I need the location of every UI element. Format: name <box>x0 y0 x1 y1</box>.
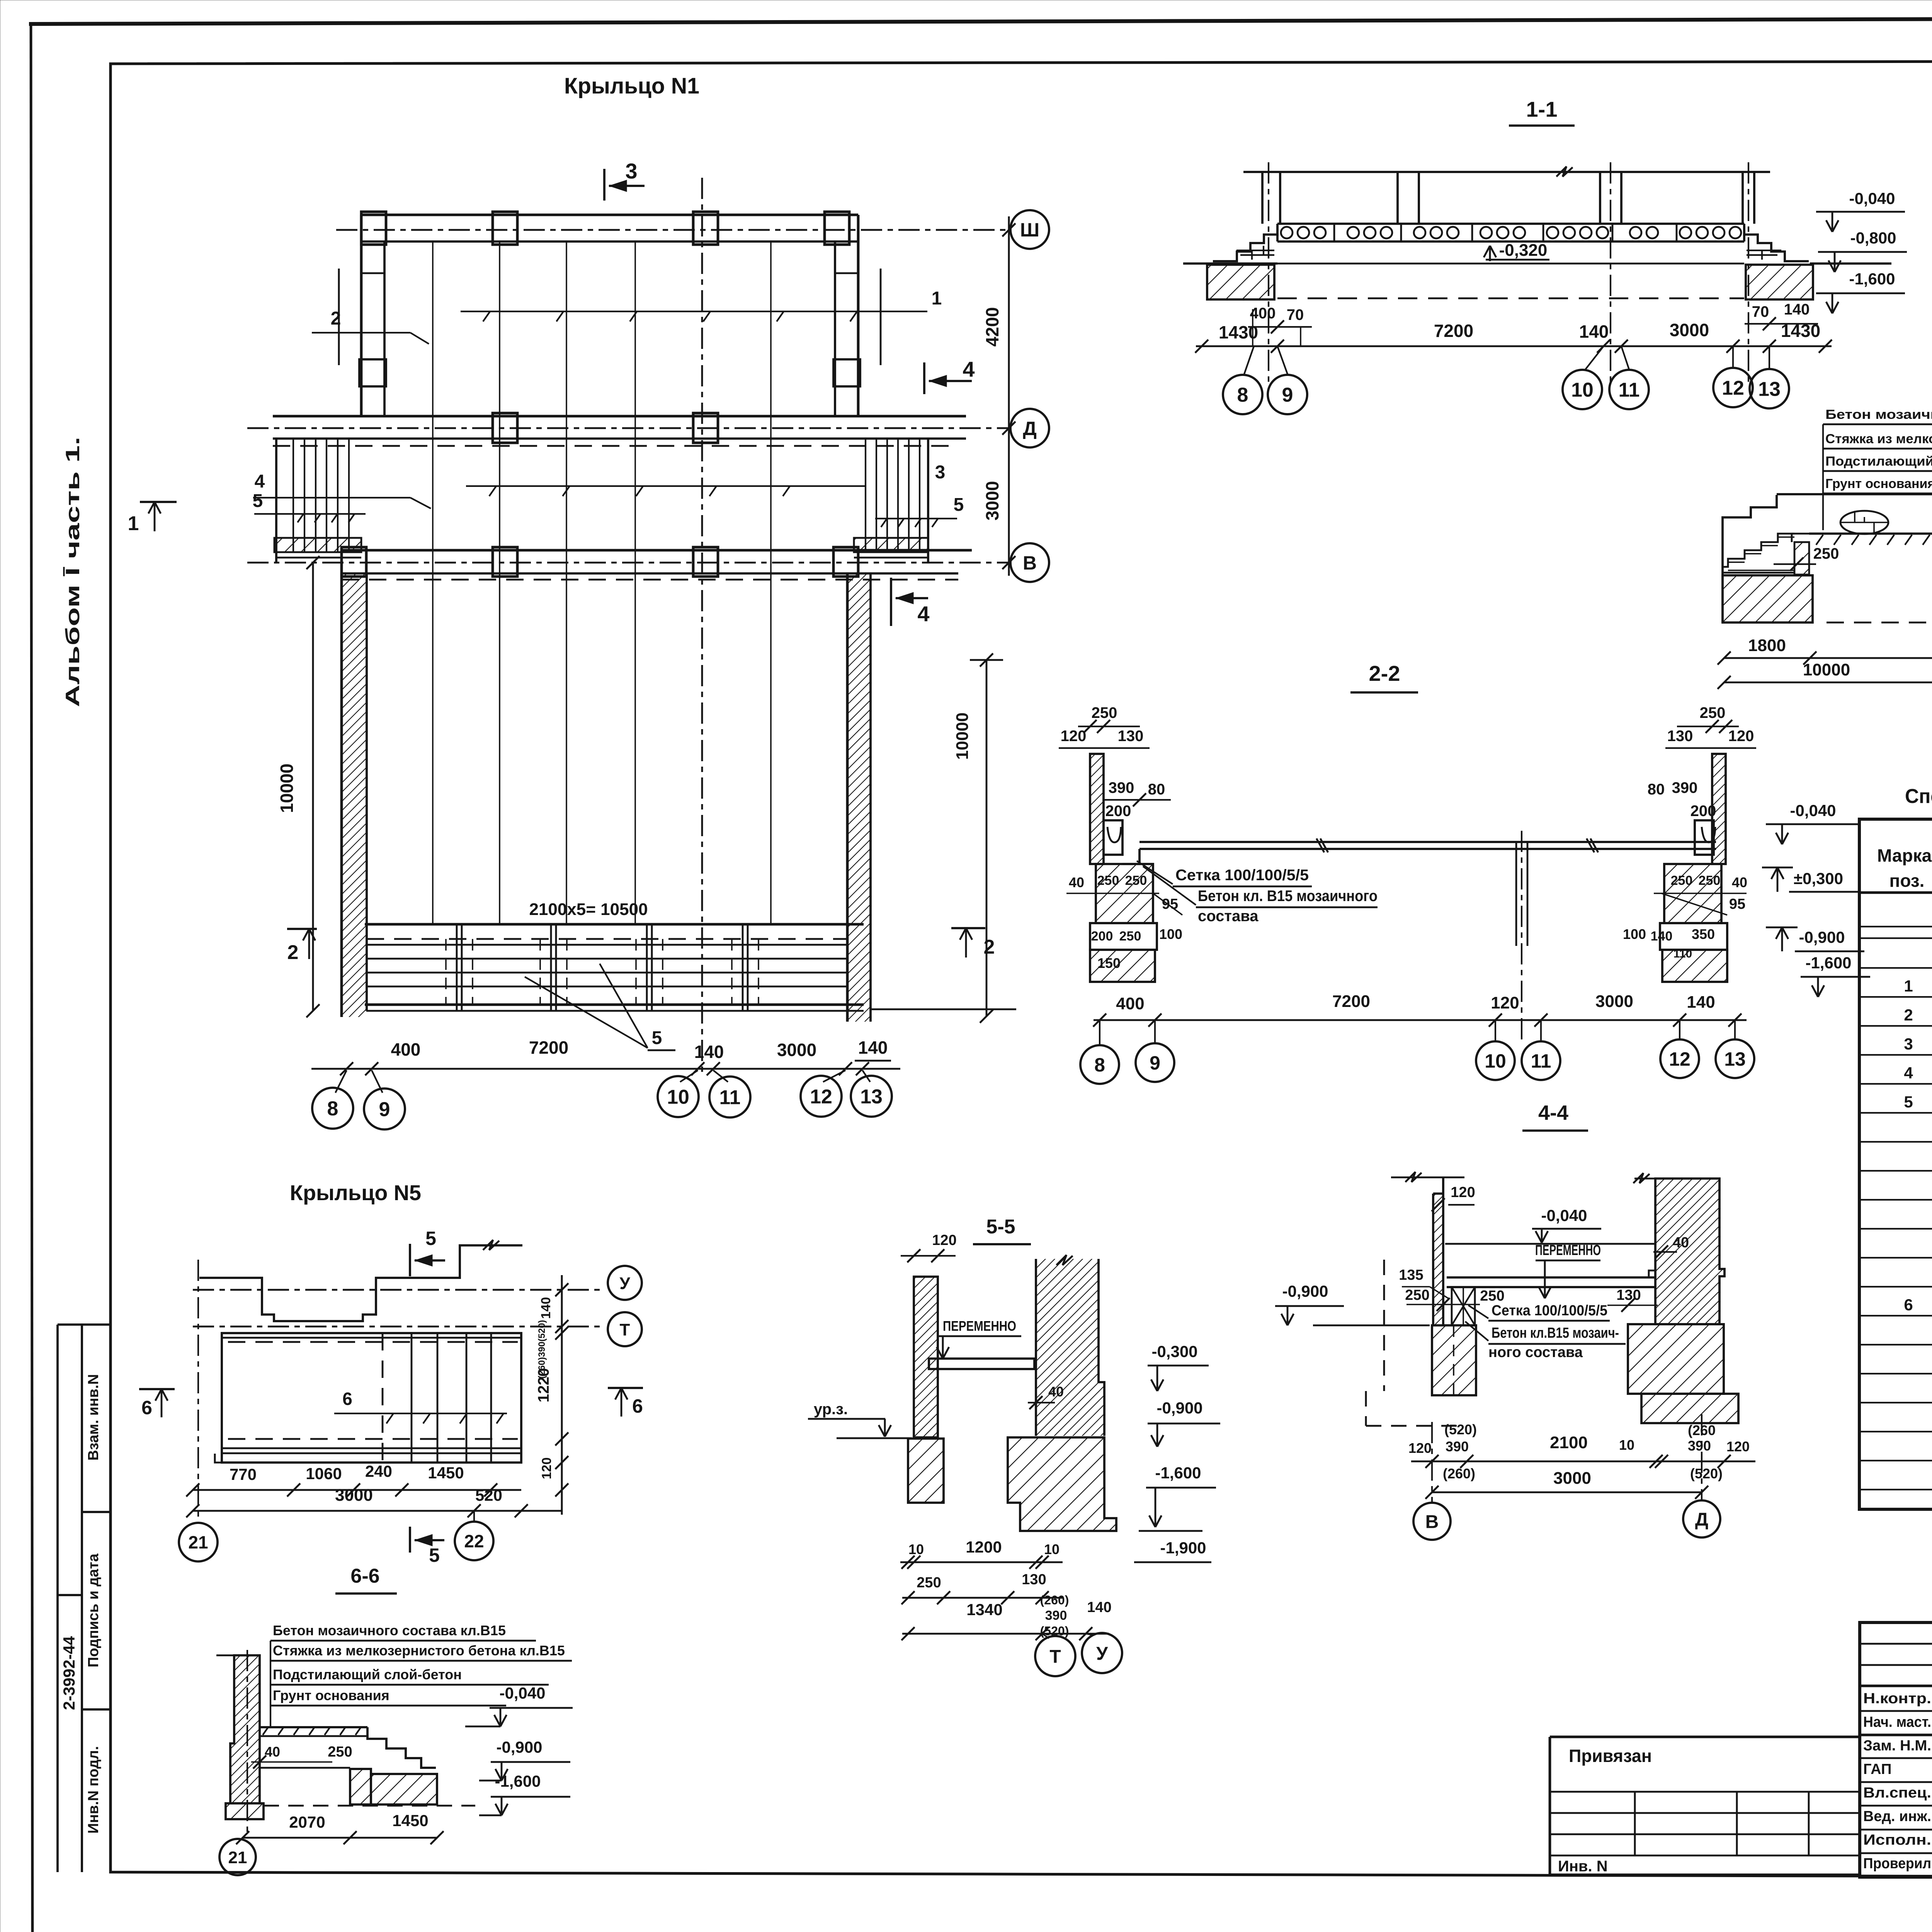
section 3-3 dim line 2 <box>1718 658 1932 689</box>
section 2-2 left small dims <box>1066 873 1182 915</box>
svg-text:1200: 1200 <box>966 1538 1002 1556</box>
section 2-2 right small dims <box>1654 873 1747 915</box>
section 1-1 right stair <box>1744 226 1809 261</box>
section 1-1 wall break line <box>1243 167 1770 177</box>
svg-text:140: 140 <box>1087 1599 1111 1616</box>
svg-text:250: 250 <box>1699 873 1721 888</box>
section 6-6 slab <box>260 1727 367 1736</box>
section 4-4 dim 135 <box>1399 1267 1448 1298</box>
section 1-1 axis circle 13 <box>1750 369 1789 408</box>
plan N1 right vertical dim line <box>1002 216 1015 576</box>
plan N1 middle wall band <box>273 416 966 439</box>
binding block grid <box>1550 1737 1860 1875</box>
section 4-4 dims row1 <box>1408 1422 1755 1468</box>
svg-text:3000: 3000 <box>777 1040 816 1060</box>
plan N1 top column 2 <box>493 212 517 245</box>
section 2-2 center joint <box>1516 831 1527 1043</box>
plan N1 axis leaders <box>335 1070 870 1093</box>
svg-text:3: 3 <box>1904 1035 1913 1053</box>
svg-text:9: 9 <box>1150 1052 1160 1074</box>
svg-text:120: 120 <box>1726 1439 1750 1454</box>
svg-text:250: 250 <box>1119 929 1141 944</box>
svg-text:Т: Т <box>1049 1646 1061 1667</box>
plan N5 right vertical dims <box>535 1275 568 1515</box>
svg-text:250: 250 <box>328 1744 352 1760</box>
svg-text:1: 1 <box>1904 977 1913 995</box>
plan N1 callout 5 left <box>253 491 366 522</box>
spec table grid <box>1859 819 1932 1509</box>
plan N1 stair steps <box>367 945 847 986</box>
svg-text:-0,320: -0,320 <box>1499 241 1548 260</box>
plan N1 bottom dimension line <box>311 1062 900 1075</box>
svg-text:10000: 10000 <box>953 713 972 760</box>
svg-text:9: 9 <box>1282 384 1293 406</box>
svg-text:Крыльцо N1: Крыльцо N1 <box>564 73 699 99</box>
plan N5 axis circle 21 <box>179 1523 218 1561</box>
svg-text:770: 770 <box>230 1465 257 1483</box>
svg-text:6: 6 <box>141 1397 152 1418</box>
section 4-4 wall dim 40 <box>1653 1235 1689 1259</box>
svg-text:Д: Д <box>1023 418 1037 439</box>
section 5-5 dims row3 <box>901 1593 1112 1640</box>
plan N1 lower column 4 <box>833 547 858 577</box>
section 1-1 axis leaders <box>1244 346 1769 374</box>
svg-text:1800: 1800 <box>1748 636 1786 655</box>
section 6-6 dashed bottom <box>264 1805 475 1807</box>
section 4-4 concrete label <box>1465 1321 1626 1361</box>
plan N5 dashed lines <box>228 1342 518 1439</box>
svg-text:Привязан: Привязан <box>1569 1746 1652 1766</box>
svg-text:70: 70 <box>1752 303 1769 320</box>
section 5-5 peremenno <box>937 1318 1021 1359</box>
svg-text:13: 13 <box>860 1086 883 1108</box>
svg-text:-1,900: -1,900 <box>1160 1539 1206 1557</box>
plan N1 axis circle 8 <box>312 1088 353 1129</box>
section 1-1 ground line right <box>1810 262 1891 265</box>
plan N1 section mark 4 upper <box>924 357 975 394</box>
svg-text:6: 6 <box>632 1395 643 1417</box>
svg-text:2-2: 2-2 <box>1369 661 1400 685</box>
rotated label 2-3992-44 <box>60 1636 78 1710</box>
rotated label Инв.N подл. <box>85 1746 102 1834</box>
section 1-1 level -0.320 <box>1484 241 1549 261</box>
plan N1 section mark 4 lower <box>891 578 930 626</box>
plan N1 dim 3000 <box>777 1040 816 1060</box>
svg-text:40: 40 <box>1673 1235 1689 1251</box>
binding block label <box>1569 1746 1652 1766</box>
plan N1 right court wall <box>847 573 1016 1022</box>
svg-text:7200: 7200 <box>1332 992 1370 1011</box>
section 1-1 axis circle 8 <box>1223 375 1262 414</box>
plan N1 callout 5 right <box>875 495 964 527</box>
svg-text:Спецификация материалов на: Спецификация материалов на крыльца N1, N… <box>1905 785 1932 808</box>
svg-text:120: 120 <box>539 1458 554 1480</box>
svg-text:12: 12 <box>810 1086 832 1108</box>
svg-text:±0,300: ±0,300 <box>1794 869 1843 888</box>
section 5-5 axis circles <box>1035 1633 1122 1676</box>
svg-text:22: 22 <box>464 1531 484 1551</box>
section 5-5 dim 120 <box>901 1232 957 1262</box>
svg-text:40: 40 <box>1048 1384 1064 1400</box>
plan N1 dim 7200 <box>529 1037 568 1058</box>
svg-text:250: 250 <box>1671 873 1693 888</box>
section 1-1 axis dashdot verticals <box>1269 162 1748 386</box>
section 6-6 foundation block <box>371 1774 437 1804</box>
svg-text:140: 140 <box>539 1297 553 1319</box>
svg-text:240: 240 <box>365 1462 392 1480</box>
section 4-4 right wall <box>1633 1173 1725 1324</box>
section 1-1 right foundation <box>1746 265 1813 299</box>
svg-text:250: 250 <box>1092 704 1117 721</box>
svg-text:Альбом Ī часть 1.: Альбом Ī часть 1. <box>62 437 83 707</box>
svg-text:200: 200 <box>1091 929 1113 944</box>
section 1-1 axis circle 10 <box>1563 370 1602 409</box>
svg-text:1450: 1450 <box>428 1464 464 1482</box>
plan N1 right wing hatch strip <box>854 538 928 552</box>
section 4-4 slab band <box>1447 1270 1655 1287</box>
svg-text:150: 150 <box>1097 955 1121 971</box>
plan N1 lower wall band <box>342 550 972 573</box>
plan N5 dim row 2 <box>186 1486 562 1517</box>
svg-text:120: 120 <box>1061 728 1087 745</box>
svg-text:Стяжка из мелкозернистого бето: Стяжка из мелкозернистого бетона кл.В15 <box>273 1643 565 1658</box>
svg-text:Подпись и дата: Подпись и дата <box>85 1553 102 1667</box>
plan N1 section mark 1 <box>128 502 177 535</box>
section 2-2 right parapet dims <box>1665 704 1756 748</box>
plan N1 hidden line below V <box>342 579 958 581</box>
plan N1 right wall <box>833 215 881 416</box>
svg-text:Н.контр.: Н.контр. <box>1863 1690 1931 1707</box>
plan N5 building wall <box>199 1240 522 1321</box>
svg-text:-0,800: -0,800 <box>1850 229 1896 247</box>
svg-text:40: 40 <box>1732 874 1747 890</box>
svg-text:В: В <box>1023 552 1037 574</box>
svg-text:11: 11 <box>1531 1050 1551 1072</box>
svg-text:110: 110 <box>1673 947 1692 960</box>
section 5-5 right foundation <box>1008 1437 1116 1531</box>
svg-text:4: 4 <box>917 602 929 626</box>
section 2-2 right pier <box>1664 864 1721 923</box>
plan N1 axis circle Д <box>1010 409 1049 447</box>
svg-text:10: 10 <box>1044 1541 1060 1557</box>
rotated label Альбом 1 часть 1 <box>62 437 83 707</box>
section 1-1 main dim line <box>1195 320 1832 353</box>
svg-text:3000: 3000 <box>982 481 1002 520</box>
svg-text:ПЕРЕМЕННО: ПЕРЕМЕННО <box>1535 1242 1601 1259</box>
svg-text:Бетон мозаичного состава кл.В1: Бетон мозаичного состава кл.В15 <box>273 1622 506 1638</box>
section 5-5 right wall <box>1036 1255 1104 1436</box>
svg-text:(260): (260) <box>1040 1593 1069 1607</box>
plan N5 axis line U <box>193 1289 605 1291</box>
svg-text:Подстилающий слой-бетон марки: Подстилающий слой-бетон марки 300 h=80мм <box>1825 454 1932 469</box>
section 4-4 mesh label <box>1468 1303 1610 1321</box>
plan N1 axis circle 10 <box>658 1076 699 1117</box>
section 2-2 axis circle 10 <box>1476 1041 1515 1080</box>
svg-text:Стяжка из мелкозернистого бето: Стяжка из мелкозернистого бетона кл.В15 … <box>1825 432 1932 446</box>
section 2-2 left parapet dims <box>1059 704 1150 748</box>
section 2-2 right parapet wall <box>1712 754 1726 864</box>
section 2-2 axis circle 11 <box>1522 1041 1560 1080</box>
svg-text:Марка,: Марка, <box>1877 845 1932 866</box>
svg-text:10000: 10000 <box>277 764 297 813</box>
plan N5 dim row 1 <box>186 1462 521 1497</box>
plan N1 axis circle Ш <box>1010 210 1049 249</box>
svg-text:Сетка 100/100/5/5: Сетка 100/100/5/5 <box>1175 867 1309 884</box>
plan N1 lower column 2 <box>493 547 517 577</box>
plan N1 stair dividers <box>446 924 759 1011</box>
svg-text:10: 10 <box>667 1086 689 1109</box>
plan N5 title <box>290 1180 421 1205</box>
svg-text:140: 140 <box>694 1042 724 1062</box>
svg-text:В: В <box>1425 1512 1439 1532</box>
section 5-5 dim 40 <box>1028 1384 1064 1409</box>
svg-text:-0,900: -0,900 <box>1156 1399 1202 1417</box>
plan N1 stairs length label <box>529 900 648 919</box>
section 4-4 axis circle Д <box>1683 1500 1720 1537</box>
title block grid <box>1860 1622 1932 1877</box>
svg-text:Сетка 100/100/5/5: Сетка 100/100/5/5 <box>1492 1303 1607 1319</box>
left margin boxes <box>58 1325 111 1872</box>
svg-text:-1,600: -1,600 <box>495 1772 541 1790</box>
plan N1 left wing treads <box>276 439 361 562</box>
section 2-2 left footing <box>1090 923 1182 982</box>
svg-text:2100: 2100 <box>1550 1433 1588 1452</box>
plan N5 item 6 callout <box>334 1389 507 1423</box>
rotated label Подпись и дата <box>85 1553 102 1667</box>
svg-text:Бетон кл.В15 мозаич-: Бетон кл.В15 мозаич- <box>1492 1325 1619 1341</box>
plan N1 axis circle В <box>1010 543 1049 582</box>
svg-text:350: 350 <box>1692 926 1715 942</box>
section 4-4 mesh pier <box>1452 1287 1475 1325</box>
svg-text:120: 120 <box>932 1232 956 1248</box>
plan N5 axis line T <box>193 1326 605 1328</box>
section 4-4 dim 130 <box>1607 1287 1658 1312</box>
section 4-4 right foundation <box>1628 1324 1738 1423</box>
plan N1 stairs dashed line <box>367 938 847 940</box>
svg-text:390: 390 <box>1109 779 1134 796</box>
svg-text:13: 13 <box>1758 378 1781 401</box>
svg-text:140: 140 <box>1651 929 1673 944</box>
plan N1 top wall <box>361 215 858 241</box>
plan N1 dim 140b <box>855 1037 891 1061</box>
svg-text:250: 250 <box>1480 1288 1504 1304</box>
section 5-5 slab <box>929 1359 1034 1369</box>
svg-text:4-4: 4-4 <box>1538 1101 1568 1124</box>
section 6-6 lower line <box>260 1767 350 1769</box>
svg-text:Ш: Ш <box>1020 219 1039 241</box>
rotated label Взам.инв.N <box>85 1374 102 1461</box>
svg-text:У: У <box>1096 1643 1108 1664</box>
svg-text:250: 250 <box>1097 873 1119 888</box>
svg-text:10: 10 <box>1571 379 1594 401</box>
svg-text:7200: 7200 <box>529 1037 568 1058</box>
svg-text:400: 400 <box>1116 994 1144 1013</box>
svg-text:ур.з.: ур.з. <box>814 1401 848 1418</box>
section 6-6 title <box>335 1565 397 1594</box>
section 3-3 dashed line <box>1827 622 1932 624</box>
svg-text:5: 5 <box>954 495 964 515</box>
plan N1 left court wall <box>342 573 367 1017</box>
svg-text:10: 10 <box>908 1541 924 1557</box>
plan N5 slab outline <box>215 1333 521 1463</box>
svg-text:6: 6 <box>342 1389 352 1409</box>
svg-text:390: 390 <box>1045 1608 1067 1623</box>
svg-text:5: 5 <box>429 1544 440 1566</box>
svg-text:250: 250 <box>917 1575 941 1591</box>
svg-text:Исполн.: Исполн. <box>1863 1832 1931 1848</box>
svg-text:-0,900: -0,900 <box>496 1738 542 1756</box>
section 2-2 dim line <box>1093 992 1747 1027</box>
svg-text:9: 9 <box>379 1099 390 1121</box>
section 2-2 left wall labels <box>1104 779 1171 820</box>
svg-text:80: 80 <box>1148 781 1165 798</box>
section 2-2 axis leaders <box>1100 1020 1735 1045</box>
plan N5 axis circle U <box>608 1266 642 1300</box>
svg-text:2: 2 <box>331 308 341 329</box>
svg-text:ПЕРЕМЕННО: ПЕРЕМЕННО <box>943 1318 1016 1334</box>
svg-text:Подстилающий слой-бетон: Подстилающий слой-бетон <box>273 1667 462 1682</box>
section 6-6 level -0.040 <box>465 1684 573 1726</box>
svg-text:1430: 1430 <box>1219 322 1258 342</box>
svg-text:6-6: 6-6 <box>350 1565 379 1587</box>
section 3-3 brick lens <box>1840 511 1888 534</box>
section 4-4 dims 250 <box>1405 1287 1504 1311</box>
svg-text:-0,040: -0,040 <box>1849 189 1895 207</box>
section 1-1 hollowcore slab <box>1277 224 1744 241</box>
svg-text:21: 21 <box>188 1532 208 1553</box>
plan N1 dim 3000 rotated <box>982 481 1002 520</box>
section 1-1 dashed bottom <box>1277 298 1744 299</box>
title block signatures text <box>1863 1690 1932 1872</box>
spec table data rows <box>1904 977 1932 1314</box>
svg-text:2-3992-44: 2-3992-44 <box>60 1636 78 1710</box>
section 5-5 level -1.900 <box>1134 1531 1211 1562</box>
svg-text:120: 120 <box>1491 993 1519 1012</box>
plan N5 section mark 5 bottom <box>410 1527 444 1566</box>
svg-text:поз.: поз. <box>1889 871 1925 891</box>
svg-text:5: 5 <box>1904 1093 1913 1111</box>
svg-text:120: 120 <box>1408 1440 1432 1456</box>
plan N1 dim 140a <box>694 1042 724 1062</box>
section 1-1 soffit line <box>1277 263 1744 265</box>
section 5-5 title <box>973 1216 1031 1244</box>
svg-text:-0,040: -0,040 <box>499 1684 545 1702</box>
svg-text:Крыльцо N5: Крыльцо N5 <box>290 1180 421 1205</box>
svg-text:3: 3 <box>625 159 637 183</box>
plan N1 slab mark line 3 <box>466 462 945 496</box>
svg-text:70: 70 <box>1287 306 1304 323</box>
svg-text:8: 8 <box>327 1098 338 1120</box>
svg-text:5: 5 <box>425 1228 436 1249</box>
plan N1 section mark 2 left <box>287 929 317 964</box>
section 2-2 left channel <box>1104 820 1122 855</box>
svg-text:3: 3 <box>935 462 946 483</box>
svg-text:140: 140 <box>1784 301 1810 318</box>
plan N1 section mark 3 <box>604 159 645 201</box>
svg-text:Взам. инв.N: Взам. инв.N <box>85 1374 102 1461</box>
svg-text:ного состава: ного состава <box>1488 1344 1583 1361</box>
svg-text:140: 140 <box>858 1037 888 1058</box>
svg-text:95: 95 <box>1729 896 1745 912</box>
svg-text:7200: 7200 <box>1434 321 1473 341</box>
svg-text:3000: 3000 <box>1595 992 1633 1011</box>
section 3-3 left stair <box>1723 495 1794 622</box>
svg-text:3000: 3000 <box>335 1486 373 1505</box>
svg-text:11: 11 <box>1619 379 1640 401</box>
section 4-4 axis lines <box>1432 1414 1702 1503</box>
plan N1 stairs top edge <box>365 923 864 926</box>
plan N1 stairs bottom edge <box>365 1005 864 1011</box>
plan N1 item 5 label <box>525 964 675 1050</box>
svg-text:ГАП: ГАП <box>1863 1761 1891 1777</box>
svg-text:250: 250 <box>1405 1287 1429 1303</box>
section 2-2 axis circle 13 <box>1716 1039 1754 1078</box>
section 2-2 axis circle 9 <box>1136 1043 1174 1082</box>
plan N1 middle column 2 <box>693 413 718 443</box>
plan N1 axis circle 11 <box>709 1077 750 1117</box>
section 6-6 level -0.900 <box>479 1738 570 1781</box>
plan N1 top column 4 <box>825 212 849 245</box>
plan N5 axis 21 line <box>197 1260 199 1522</box>
section 6-6 wall <box>216 1655 264 1819</box>
section 3-3 top line <box>1777 489 1932 499</box>
section 1-1 left stair <box>1213 226 1277 261</box>
svg-text:130: 130 <box>1616 1287 1641 1303</box>
section 2-2 floor slab <box>1122 838 1716 864</box>
svg-text:8: 8 <box>1094 1054 1105 1076</box>
svg-text:250: 250 <box>1813 545 1839 562</box>
binding block inv label <box>1558 1858 1608 1875</box>
section 2-2 left pier <box>1096 864 1153 923</box>
svg-text:12: 12 <box>1669 1048 1690 1070</box>
plan N5 section mark 6 left <box>139 1389 175 1418</box>
svg-text:Д: Д <box>1695 1509 1708 1530</box>
svg-text:(520): (520) <box>1690 1466 1723 1481</box>
plan N1 dim 400 <box>391 1039 421 1060</box>
section 2-2 level -0.040 <box>1766 801 1859 844</box>
plan N5 stair treads <box>383 1333 491 1463</box>
svg-text:250: 250 <box>1700 704 1726 721</box>
svg-text:6: 6 <box>1904 1296 1913 1314</box>
section 2-2 left parapet wall <box>1090 754 1104 864</box>
plan N1 left wall <box>339 215 386 416</box>
section 2-2 concrete label <box>1143 866 1378 925</box>
svg-text:-1,600: -1,600 <box>1805 954 1851 972</box>
svg-text:-0,300: -0,300 <box>1151 1342 1197 1361</box>
svg-text:4: 4 <box>963 357 975 381</box>
svg-text:4: 4 <box>1904 1064 1913 1082</box>
svg-text:1430: 1430 <box>1781 321 1820 341</box>
section 4-4 floor line <box>1445 1243 1655 1245</box>
plan N1 middle column 1 <box>493 413 517 443</box>
section 2-2 right footing <box>1623 923 1727 982</box>
section 1-1 left foundation <box>1207 265 1274 299</box>
svg-text:10000: 10000 <box>1803 660 1850 679</box>
section 2-2 right wall labels <box>1648 779 1716 820</box>
section 2-2 axis circle 12 <box>1660 1039 1699 1078</box>
svg-text:200: 200 <box>1105 803 1131 820</box>
section 3-3 left material labels <box>1823 407 1932 530</box>
svg-text:135: 135 <box>1399 1267 1423 1283</box>
svg-text:Вед. инж.: Вед. инж. <box>1863 1808 1931 1825</box>
plan N5 axis circle T <box>608 1312 642 1346</box>
svg-text:Инв.N подл.: Инв.N подл. <box>85 1746 102 1834</box>
svg-text:1450: 1450 <box>392 1811 428 1830</box>
plan N1 dim 4200 rotated <box>982 307 1002 347</box>
section 2-2 level -0.900 <box>1766 927 1864 951</box>
section 2-2 title <box>1350 661 1418 692</box>
plan N1 axis line Sh <box>336 229 1010 231</box>
